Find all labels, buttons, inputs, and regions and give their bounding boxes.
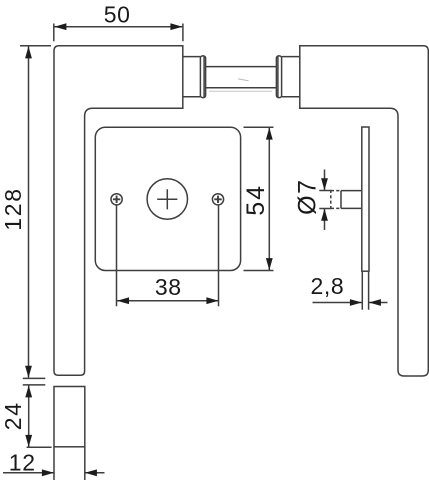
- arrowhead 128 top: [25, 46, 32, 58]
- dim 38 line: [117, 300, 218, 302]
- section rect side extension lines: [54, 447, 85, 480]
- dim 54 extension lines: [244, 127, 274, 270]
- spindle stub side view: [341, 191, 362, 209]
- dim 2,8 extension lines: [362, 272, 368, 310]
- side view rose plate bar: [362, 127, 369, 271]
- dim 12 arrow shafts: [3, 472, 105, 474]
- left handle neck: [183, 57, 201, 97]
- right collar ring: [276, 56, 281, 98]
- right lever handle outline: [300, 46, 429, 376]
- svg-text:24: 24: [0, 401, 26, 430]
- arrowhead 38 right: [206, 297, 218, 304]
- spindle stub hidden dashed part: [331, 190, 341, 209]
- arrowhead 54 bottom: [266, 258, 273, 270]
- svg-text:Ø7: Ø7: [294, 178, 322, 215]
- svg-text:50: 50: [104, 1, 131, 27]
- dim 07 extension lines: [319, 191, 330, 209]
- arrowhead 2,8 left: [350, 299, 362, 306]
- left lever handle outline: [54, 46, 183, 376]
- arrowhead 12 right: [85, 469, 97, 476]
- left collar ring inner line: [203, 56, 205, 97]
- arrowhead 50 right: [170, 23, 182, 30]
- arrowhead 50 left: [54, 23, 66, 30]
- svg-text:128: 128: [0, 187, 26, 230]
- dim 2,8 arrow shafts: [313, 302, 388, 304]
- svg-text:2,8: 2,8: [311, 273, 345, 299]
- right handle neck: [282, 57, 300, 97]
- svg-text:12: 12: [9, 449, 36, 475]
- arrowhead 12 left: [42, 469, 54, 476]
- dim 07 arrow shafts: [324, 170, 326, 231]
- arrowhead 54 top: [266, 128, 273, 140]
- arrowhead 07 top: [321, 178, 328, 190]
- arrowhead 2,8 right: [369, 299, 381, 306]
- right collar ring inner line: [277, 56, 279, 97]
- dim 38 extension lines: [117, 206, 219, 307]
- arrowhead 24 top: [25, 385, 32, 397]
- dim 50 line: [54, 26, 182, 28]
- svg-text:38: 38: [155, 274, 182, 300]
- spindle bar: [206, 67, 277, 88]
- right screw: [212, 194, 223, 205]
- arrowhead 128 bottom: [25, 366, 32, 378]
- svg-text:54: 54: [242, 184, 270, 216]
- arrowhead 24 bottom: [25, 435, 32, 447]
- arrowhead 38 left: [117, 297, 129, 304]
- square rose plate: [95, 127, 240, 270]
- dim 24 extension lines: [23, 385, 52, 447]
- dim 54 line: [268, 128, 270, 271]
- dim 50 extension lines: [54, 24, 183, 42]
- centre cylinder circle: [147, 179, 187, 219]
- left screw: [111, 194, 122, 205]
- arrowhead 07 bottom: [321, 209, 328, 221]
- dim 128 extension lines: [20, 46, 51, 379]
- spindle mid shading line: [238, 79, 249, 81]
- section rectangle 12x24: [54, 387, 85, 447]
- left collar ring: [200, 56, 205, 98]
- centre crosshair: [157, 189, 177, 209]
- dim 128 line: [28, 46, 30, 377]
- dim 24 line: [28, 385, 30, 447]
- spindle bottom highlight line: [209, 90, 272, 92]
